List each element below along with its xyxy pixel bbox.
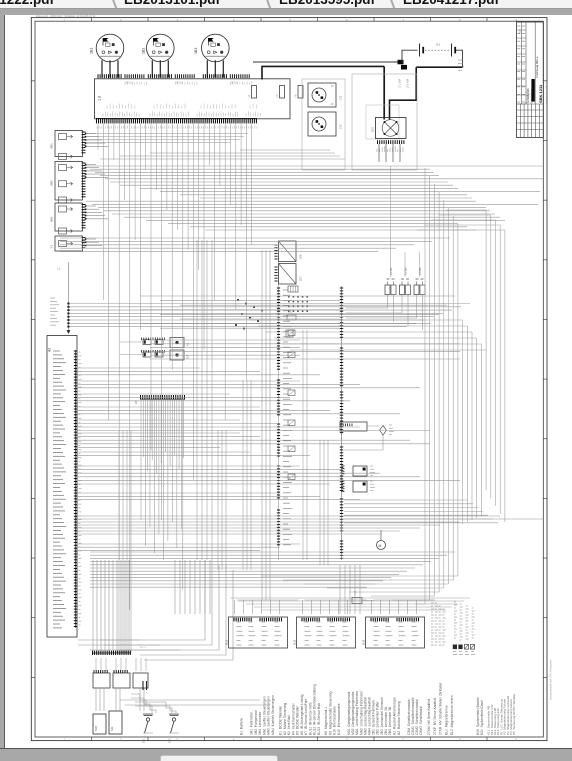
wires mid strip feeders: [261, 250, 263, 600]
harness outline around sockets: [302, 79, 345, 170]
wire thick bus to starter: [416, 66, 462, 68]
title block date name microtext: [517, 25, 520, 27]
svg-text:1F1 50A: 1F1 50A: [399, 79, 402, 88]
svg-text:SBK 1211: SBK 1211: [538, 84, 543, 103]
wire loop 4B1: [344, 426, 383, 450]
wire verticals bundle x220: [217, 430, 219, 570]
title block outline: [517, 22, 544, 138]
terminal strip X20 ticks 380: [277, 379, 280, 381]
module box 26B lower: [279, 264, 297, 285]
wire bundle mid-right returns: [344, 499, 468, 501]
relay K22: [113, 673, 130, 688]
notes designators: [453, 651, 456, 653]
component marks right of X20: [288, 330, 295, 336]
wires into 6U2: [302, 600, 304, 614]
wire bundle below X6: [140, 399, 142, 520]
terminal strip X1 pin numbers: [96, 127, 98, 129]
svg-text:X9Y: X9Y: [288, 312, 293, 314]
svg-text:P5 Steuerung DC/DC Wandler: P5 Steuerung DC/DC Wandler: [512, 694, 516, 735]
wire verticals bundle x245: [242, 380, 244, 570]
motor unit 5M1: [93, 714, 106, 734]
pin dots 9B1: [85, 133, 87, 135]
pin dots 9B2: [85, 164, 87, 166]
wire fan W from control unit: [78, 367, 200, 369]
terminal strip X20 line: [278, 256, 280, 560]
labels right of X20: [283, 289, 288, 291]
starter relay 1K5 box: [376, 118, 407, 139]
wire corners into relays: [100, 560, 205, 640]
svg-text:26B: 26B: [299, 254, 303, 259]
module fuse F4: [252, 86, 257, 99]
relay K1 fuse elements: [143, 340, 151, 345]
motor 4M1: [377, 541, 386, 550]
relay coil symbols right of X20: [288, 286, 298, 292]
wire nest mid corners: [250, 319, 463, 321]
wires from 9B3: [86, 205, 97, 207]
relay K1 coil box: [170, 338, 184, 348]
module box A1 outline: [95, 79, 291, 119]
terminal strip X20 ticks 466: [277, 465, 280, 467]
wires from 9B1: [86, 133, 97, 135]
legend checkbox BE1 filled: [453, 645, 457, 650]
terminal comb under 1B2: [147, 74, 149, 78]
svg-text:G1: G1: [436, 43, 440, 47]
connector block 6U3 pin text: [374, 621, 378, 623]
wire bus socket returns: [240, 149, 330, 151]
terminal strip X20 ticks 510: [277, 509, 280, 511]
wire fan X from control unit: [78, 465, 300, 467]
wires K1 feed: [120, 341, 143, 343]
svg-text:1B2: 1B2: [142, 48, 146, 54]
terminal comb right of 9B3: [82, 204, 86, 206]
svg-text:Dokument1 - EB2041217 Schaltp: Dokument1 - EB2041217 Schaltplan 12.04.2…: [36, 15, 96, 18]
labels left of A2 strip: [53, 350, 60, 352]
valve unit 9B2 box: [55, 162, 83, 201]
wire bus above connector blocks: [230, 597, 470, 599]
terminal strip X20 ticks 424: [277, 423, 280, 425]
wires K2 feed: [120, 354, 143, 356]
legend checkbox BE3 outline: [464, 645, 468, 650]
terminal strip X20 ticks 288: [277, 287, 280, 289]
wires into 6U1: [234, 600, 236, 614]
svg-text:C5M3 Schaltmodul: C5M3 Schaltmodul: [419, 706, 423, 735]
connector block 6U2 pin text: [305, 621, 309, 623]
wire trunk right verticals group A: [424, 168, 426, 604]
sensor box 4B1: [340, 422, 367, 431]
terminal strip X40: [341, 286, 343, 560]
svg-text:2B5 Lenkmotor 3B: 2B5 Lenkmotor 3B: [388, 706, 392, 735]
svg-text:6U3: 6U3: [361, 639, 365, 645]
wires bottom left area: [78, 639, 140, 641]
svg-text:1X2: 1X2: [339, 124, 343, 129]
wire bus Y to connectors: [90, 551, 455, 553]
battery G1 cell 1: [419, 44, 421, 57]
wire thick bus into module: [262, 66, 384, 79]
wires solenoid risers: [390, 166, 392, 277]
control unit A2 terminal strip: [75, 350, 77, 628]
wire thick starter drop left: [383, 66, 385, 119]
svg-text:Urheberschutz DIN 34: Urheberschutz DIN 34: [545, 82, 548, 104]
relay 4K1: [353, 466, 367, 476]
wire battery positive riser: [402, 50, 418, 62]
starter relay solenoid symbol: [382, 120, 399, 137]
wires bottom-left drops2: [95, 688, 97, 711]
pin microtext near 1B2: [174, 83, 176, 85]
wires bottom left drops: [92, 560, 94, 653]
svg-text:26C: 26C: [299, 276, 303, 281]
svg-text:MA4 Kuehler Steuerungen: MA4 Kuehler Steuerungen: [271, 695, 275, 735]
pin numbers right of A2 strip: [79, 351, 81, 353]
svg-text:2F1 X: 2F1 X: [140, 647, 146, 649]
svg-text:F6: F6: [295, 94, 298, 97]
relay K23: [133, 673, 148, 688]
module fuse F6: [298, 86, 303, 99]
sensor 1B2 symbol row: [152, 51, 155, 54]
valve unit 9B1 box: [55, 131, 83, 157]
terminator node W1: [67, 330, 71, 334]
svg-text:9B3: 9B3: [50, 216, 54, 222]
connector block 6U2: [297, 617, 356, 648]
wire bus main band: [86, 165, 543, 167]
svg-text:F10: F10: [354, 590, 357, 595]
terminal strip X5: [92, 652, 131, 654]
battery G1 link dashed: [425, 49, 450, 51]
wires into relay row: [95, 658, 97, 671]
svg-text:A2 Rueckw Steuerung: A2 Rueckw Steuerung: [397, 701, 401, 735]
valve unit 9B3 box: [55, 203, 83, 231]
wire trunk right verticals group B: [462, 320, 464, 524]
svg-text:OE7 X: OE7 X: [175, 83, 182, 85]
wires 1B1 pins: [101, 60, 103, 77]
module fuse F5: [280, 86, 285, 99]
battery G1 cell 2: [451, 44, 453, 57]
module 5A1: [109, 711, 122, 734]
flow sensor 1B2: [147, 34, 175, 62]
terminal comb right of 9B2: [82, 162, 86, 164]
svg-text:F5: F5: [276, 94, 279, 97]
fuse 1F1 inline: [398, 60, 404, 65]
terminal comb right of Y1: [82, 237, 86, 239]
wire riser node W1: [68, 262, 70, 330]
battery terminal microtext: [458, 59, 462, 61]
svg-text:H11 Spritzmittelei Dach: H11 Spritzmittelei Dach: [480, 700, 484, 735]
module pin microtext clusters: [102, 114, 104, 117]
svg-text:1K5: 1K5: [371, 127, 375, 132]
wires from Y1: [86, 238, 97, 240]
power socket 1X1: [308, 83, 336, 107]
control unit A2 box: [47, 336, 77, 638]
svg-text:5S1: 5S1: [143, 738, 146, 743]
svg-text:1B1: 1B1: [90, 48, 94, 54]
svg-text:9B1: 9B1: [50, 143, 54, 149]
terminal strip X6: [140, 398, 185, 400]
frame section ticks top and bottom: [91, 18, 93, 22]
wires mid verticals trio: [319, 440, 321, 565]
svg-text:BU13 IR-Sensor Hub: BU13 IR-Sensor Hub: [317, 703, 321, 735]
terminal comb right of 1B2: [174, 74, 176, 78]
svg-text:F4: F4: [248, 94, 251, 97]
svg-text:1.8: 1.8: [57, 268, 61, 271]
svg-text:1B3: 1B3: [194, 48, 198, 54]
svg-text:Y1: Y1: [50, 244, 54, 248]
svg-text:1.0: 1.0: [98, 96, 102, 101]
wires mid verticals: [196, 240, 198, 560]
wires drops from strip X1: [97, 124, 99, 151]
terminal comb right of 9B1: [82, 131, 86, 133]
terminal arrows bottom left: [142, 681, 144, 690]
svg-text:Fahrzeug 90e s: Fahrzeug 90e s: [535, 56, 539, 77]
terminal comb right of 1B3: [229, 74, 231, 78]
wires 1B2 pins: [151, 60, 153, 77]
sensor 1B1 symbol row: [102, 51, 105, 54]
wire trunk right verticals group C: [485, 210, 487, 490]
svg-text:A2: A2: [48, 348, 52, 352]
title block field dividers: [520, 22, 522, 104]
svg-text:EL2 Magnetbremse hinten: EL2 Magnetbremse hinten: [450, 695, 454, 735]
pin microtext near 1B3: [229, 83, 231, 85]
svg-text:B1 Batterie: B1 Batterie: [240, 718, 244, 735]
notes item labels: [454, 601, 456, 603]
svg-text:6U2: 6U2: [292, 639, 296, 645]
wires starter relay outputs: [378, 144, 380, 162]
svg-text:9B2: 9B2: [50, 180, 54, 186]
wire battery negative drop: [456, 50, 463, 67]
svg-text:OE7 X: OE7 X: [125, 83, 132, 85]
svg-text:6U1: 6U1: [224, 639, 228, 645]
junction dots node W1: [67, 303, 69, 305]
filter diamond 4B1: [380, 426, 387, 436]
connector block 6U1 pin text: [237, 621, 241, 623]
sensor 1B3 symbol row: [207, 51, 210, 54]
pin microtext near 1B1: [124, 83, 126, 85]
svg-text:A1 Rueckw Aktionsscope: A1 Rueckw Aktionsscope: [393, 697, 397, 735]
wires to bottom connectors left: [174, 560, 176, 614]
legend checkbox BE2 filled: [458, 645, 462, 650]
wires to bottom connectors mid: [339, 565, 341, 614]
wires solenoid drains: [346, 295, 388, 309]
svg-text:1X1: 1X1: [339, 95, 343, 100]
svg-text:EL1 Magnetbremse: EL1 Magnetbremse: [444, 705, 448, 735]
flow sensor 1B3: [202, 34, 230, 62]
svg-text:5A1: 5A1: [110, 726, 114, 731]
frame section ticks left and right: [31, 80, 35, 82]
wire verticals mid-left bundle: [118, 430, 120, 653]
power socket 1X2: [308, 112, 336, 136]
svg-text:2Y1B: 2Y1B: [389, 268, 393, 275]
wire bus under module: [86, 133, 248, 135]
svg-text:M: M: [379, 544, 382, 548]
microdiamond cluster: [288, 296, 290, 298]
svg-text:K12 Bremsautomatik: K12 Bremsautomatik: [337, 703, 341, 735]
relay K2 coil box: [170, 350, 184, 360]
svg-text:Blatt: Blatt: [519, 29, 522, 34]
module box 26B upper: [279, 241, 297, 262]
wire bus group T: [69, 303, 470, 305]
svg-text:K1: K1: [186, 342, 190, 346]
terminal comb under 1B1: [97, 74, 99, 78]
wire trunk right top corners: [446, 209, 486, 211]
valve unit Y1 box: [55, 236, 83, 251]
svg-text:5S2: 5S2: [169, 738, 172, 743]
starter relay pin comb: [377, 140, 379, 144]
switch 5S1: [146, 718, 149, 721]
legend checkbox BE4 outline: [470, 645, 474, 650]
fuse 1F2 inline: [401, 65, 407, 70]
svg-text:Schutzvermerk nach DIN 34 beac: Schutzvermerk nach DIN 34 beachten: [550, 659, 553, 700]
wire bus group U: [140, 295, 455, 297]
wires mid verticals pair: [302, 330, 304, 560]
wire bus group S: [60, 237, 450, 239]
connector block 6U3: [366, 617, 425, 648]
fuse F10 inline: [352, 598, 362, 604]
wire thick starter drop right: [390, 67, 417, 119]
harness outline around starter relay: [352, 74, 417, 170]
wires solenoid feeds: [393, 295, 395, 323]
wires from 9B2: [86, 164, 97, 166]
wire battery thin feed: [253, 61, 402, 63]
terminal comb under 1B3: [202, 74, 204, 78]
svg-text:27XM HV Kette Kaufhof: 27XM HV Kette Kaufhof: [427, 699, 431, 735]
relay 4K2: [353, 481, 367, 492]
svg-text:OE7 X: OE7 X: [230, 83, 237, 85]
terminal comb right of 1B1: [124, 74, 126, 78]
wire stairs to switches: [131, 694, 152, 713]
junction dots mesh: [237, 299, 239, 301]
wires 1B3 pins: [206, 60, 208, 77]
wire nest bottom right corners: [415, 603, 425, 605]
wire bus group V: [150, 339, 300, 341]
labels left of node W1: [50, 297, 55, 299]
svg-text:2Y2B: 2Y2B: [404, 268, 408, 275]
starter relay pin microtext: [376, 149, 378, 152]
pin dots 9B3: [85, 205, 87, 207]
relay K21: [93, 673, 110, 688]
notes paragraph Achtung: [431, 599, 433, 601]
switch 5S2: [172, 718, 175, 721]
connector block 6U1: [229, 617, 288, 648]
title block revision table grid: [517, 103, 544, 105]
wires into 6U3: [371, 600, 373, 614]
svg-text:5M1: 5M1: [94, 725, 98, 731]
terminal strip X1 comb: [96, 118, 257, 120]
flow sensor 1B1: [96, 34, 124, 62]
pin dots Y1: [85, 238, 87, 240]
svg-text:2Y3B: 2Y3B: [418, 268, 422, 275]
title block logo bar: [531, 79, 534, 102]
svg-text:27XR HV Schalter Boden 2A Kab: 27XR HV Schalter Boden 2A Kabel: [439, 682, 443, 735]
relay K2 fuse elements: [143, 352, 151, 357]
svg-text:27XP HV Sense Kaufhof: 27XP HV Sense Kaufhof: [433, 698, 437, 735]
svg-text:1F2 40A: 1F2 40A: [407, 79, 410, 88]
